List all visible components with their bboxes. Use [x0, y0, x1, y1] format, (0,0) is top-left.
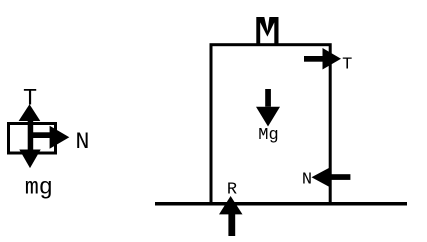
weight arrow Mg (down) in large block : shaft — [265, 89, 271, 107]
reaction arrow R (up) through ground : shaft — [228, 214, 235, 236]
label M (above large block) — [256, 17, 278, 44]
svg-text:mg: mg — [25, 175, 53, 202]
svg-text:T: T — [342, 55, 352, 74]
normal arrow N (left) on large block : head — [312, 167, 331, 187]
weight arrow mg (down) on small block : head — [19, 150, 40, 169]
weight arrow Mg (down) in large block : head — [256, 107, 280, 127]
svg-text:R: R — [227, 181, 237, 200]
tension arrow T (right) on large block : shaft — [304, 56, 323, 62]
normal arrow N (left) on large block : shaft — [330, 174, 350, 180]
tension arrow T (up) on small block : head — [19, 104, 41, 121]
tension arrow T (up) on small block : shaft — [28, 120, 34, 150]
svg-text:Mg: Mg — [258, 126, 278, 145]
tension arrow T (right) on large block : head — [323, 48, 342, 70]
normal arrow N (right) on small block : shaft — [28, 132, 50, 138]
svg-text:N: N — [75, 129, 89, 156]
reaction arrow R (up) through ground : head — [219, 196, 243, 214]
svg-text:N: N — [302, 170, 312, 189]
small block m (left free-body box) — [9, 124, 56, 154]
ground line — [155, 202, 407, 206]
large block M (right free-body box) — [211, 45, 330, 204]
normal arrow N (right) on small block : head — [50, 126, 70, 149]
